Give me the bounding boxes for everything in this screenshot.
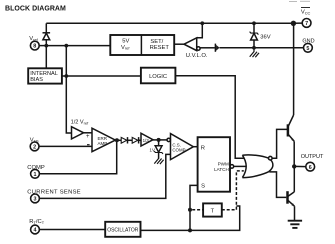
svg-text:Vref: Vref [121,45,130,51]
pin 2 VFB [30,137,39,150]
zener diode 1V clamp [150,140,164,159]
wire divider to CS comp [153,139,167,141]
diode D3 [121,137,132,143]
node S/osc junction [188,228,192,232]
node junction above internal bias [64,44,68,48]
svg-text:AMP: AMP [98,141,108,146]
transistor Q2 (bottom npn) [288,191,295,220]
svg-text:LATCH: LATCH [214,167,229,172]
wire current sense to CS comp [39,154,170,198]
pin 6 OUTPUT [301,154,324,171]
svg-text:OUTPUT: OUTPUT [301,154,324,160]
wire oscillator output [141,206,240,230]
wire bias to node [62,75,66,77]
flip-flop PWM latch [198,137,234,192]
op-amp current sense comparator [167,134,193,160]
wire NOR to bottom transistor base [269,172,286,198]
wire VFB to err amp - input [39,145,92,147]
svg-text:+: + [86,134,90,140]
wire buffer to err amp + [84,132,92,134]
ground (bars) at Q2 emitter [288,221,302,228]
op-amp error amplifier [86,128,115,152]
wire latch output to NOR [234,165,246,167]
node output junction [292,164,296,168]
node main rail to Vcc (big dot) [291,21,296,26]
transistor Q1 (top npn) [288,23,295,166]
wire dashed T left [192,209,203,211]
svg-text:2: 2 [33,145,36,151]
pin 1 COMP [27,165,45,178]
svg-text:5: 5 [306,46,309,52]
oscillator box [105,222,140,237]
wire NOR to top transistor base [272,129,287,158]
flip-flop T (divide by two) [203,203,222,216]
regulator box 5V / SET-RESET [110,35,174,55]
buffer amp 1/2 Vref [72,127,84,139]
wire diode to gnd pin [220,47,304,49]
wire RT/CT to oscillator [39,229,105,231]
svg-text:1/2 Vref: 1/2 Vref [71,119,90,125]
wire pin8 to node [39,45,46,47]
svg-text:PWM: PWM [218,162,229,167]
svg-text:T: T [211,209,215,215]
pin 8 VREF [29,36,39,50]
svg-text:SET/: SET/ [150,39,163,45]
svg-text:BIAS: BIAS [30,77,43,83]
wire COMP to err amp output [39,140,116,174]
wire logic to NOR top input [175,76,243,159]
svg-text:S: S [201,183,205,189]
svg-text:8: 8 [33,44,36,50]
diode D1 (Vref to rail) [43,23,51,45]
pin 3 CURRENT SENSE [27,189,81,202]
svg-text:36V: 36V [260,34,270,40]
zener diode 36V [250,23,271,48]
logic box [141,68,176,84]
op-amp UVLO comparator [184,38,208,59]
internal bias box [28,68,62,83]
node zener bottom [252,46,256,50]
wire rail dot to Vcc pin [293,22,302,24]
wire dashed T right to NOR input [222,171,244,210]
scan smudge top edge [289,0,310,2]
svg-text:5V: 5V [122,39,129,45]
wire err amp output [115,139,121,141]
node bias/logic junction [64,74,68,78]
ground (hatch) at 1V zener [154,158,163,164]
pin 5 GND [302,38,314,52]
node zener top on rail [252,21,256,25]
svg-text:BLOCK DIAGRAM: BLOCK DIAGRAM [5,6,66,13]
gate NOR output driver [242,155,273,178]
svg-text:R: R [201,146,205,152]
wire Vref node down to internal bias [45,46,47,69]
svg-text:6: 6 [309,165,312,171]
svg-text:LOGIC: LOGIC [149,74,167,80]
svg-text:U.V.L.O.: U.V.L.O. [186,53,208,59]
node junction UVLO input on rail [200,21,204,25]
gain block 1/3 [141,133,153,146]
svg-text:COMP: COMP [172,147,185,152]
diode D4 [132,137,141,143]
wire node to logic box [66,75,141,77]
svg-text:RT/CT: RT/CT [29,219,44,225]
wire node to 5V box [66,45,110,47]
diode D2 (on UVLO line) [215,44,219,52]
node S/T junction [188,208,192,212]
svg-text:1: 1 [34,172,37,178]
svg-text:RESET: RESET [150,45,170,51]
wire top rail [46,22,293,24]
wire UVLO bubble to diode [200,47,215,49]
node err amp output junction [115,138,119,142]
svg-text:VCC: VCC [301,10,311,16]
wire output node to Q2 collector [293,166,295,192]
wire set/reset to UVLO [174,43,184,45]
node junction at diode anode [44,44,48,48]
svg-text:4: 4 [34,228,37,234]
wire vertical reference rail down to buffer [66,46,71,133]
svg-text:OSCILLATOR: OSCILLATOR [107,227,139,233]
svg-text:1V: 1V [150,148,155,153]
wire CS comp to latch R [193,146,197,148]
svg-text:7: 7 [305,21,308,27]
wire node to bias node [46,45,66,47]
node clamp junction [157,138,161,142]
wire output node to pin 6 [294,165,306,167]
pin 4 RT/CT [29,219,44,234]
wire latch S input [190,185,198,230]
svg-text:INTERNAL: INTERNAL [30,71,58,77]
svg-text:1/3: 1/3 [143,138,150,143]
svg-text:3: 3 [34,197,37,203]
ground (hatch) at zener [250,48,259,58]
pin 7 VCC [301,8,311,28]
wire rail to UVLO input [197,23,203,38]
